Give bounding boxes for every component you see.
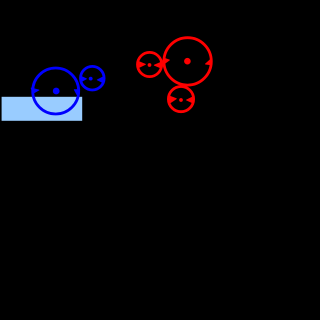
left arrowhead of gear G1 <box>163 58 169 64</box>
right arrowhead of gear G1 <box>206 60 211 65</box>
right arrowhead of gear G3 <box>187 97 193 103</box>
center dot of gear G2 <box>148 63 152 67</box>
gear G2 (small red left) <box>138 52 162 76</box>
center dot of gear G1 <box>184 58 191 65</box>
right arrowhead of wheel W2 <box>97 77 103 83</box>
gear G3 (small red bottom) <box>168 87 193 112</box>
center dot of wheel W2 <box>89 77 93 81</box>
left arrowhead of wheel W1 <box>31 88 39 93</box>
wheel W2 (small blue) <box>81 66 105 90</box>
center dot of gear G3 <box>179 98 183 102</box>
gear G1 (big red) <box>164 38 211 85</box>
right arrowhead of gear G2 <box>154 62 161 68</box>
center dot of wheel W1 <box>53 88 60 95</box>
right arrowhead of wheel W1 <box>74 90 79 95</box>
wheel W1 (big blue) <box>33 68 79 114</box>
left arrowhead of gear G2 <box>139 62 146 68</box>
surface / rack (light blue block) <box>2 97 83 121</box>
left arrowhead of gear G3 <box>169 96 176 103</box>
left arrowhead of wheel W2 <box>80 76 86 82</box>
